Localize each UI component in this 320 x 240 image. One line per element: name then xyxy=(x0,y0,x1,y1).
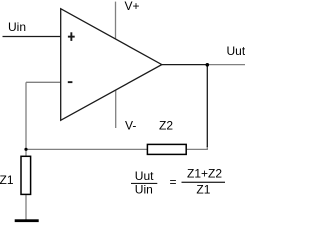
svg-text:Uin: Uin xyxy=(135,183,153,197)
pin + noninverting input symbol xyxy=(68,32,75,41)
svg-text:Z1+Z2: Z1+Z2 xyxy=(187,167,222,181)
formula right fraction bar xyxy=(182,182,226,183)
svg-text:Uin: Uin xyxy=(8,20,26,34)
wire output down to feedback xyxy=(206,65,208,147)
svg-text:V-: V- xyxy=(125,119,136,133)
pin - inverting input symbol xyxy=(68,81,73,83)
wire Uin input to noninverting pin xyxy=(3,36,62,38)
svg-text:Z1: Z1 xyxy=(0,173,14,187)
wire junction to Z2 left xyxy=(26,148,147,150)
svg-text:Z2: Z2 xyxy=(159,119,173,133)
wire feedback vertical left xyxy=(25,82,27,156)
op-amp U1 triangle xyxy=(61,9,162,121)
svg-text:V+: V+ xyxy=(125,0,140,13)
resistor Z2 xyxy=(147,144,186,154)
wire inverting input horizontal xyxy=(26,81,61,83)
wire V+ supply vertical xyxy=(115,2,117,40)
wire output from op-amp xyxy=(162,64,208,66)
svg-text:=: = xyxy=(170,175,177,189)
svg-text:Uut: Uut xyxy=(227,44,246,58)
svg-text:Uut: Uut xyxy=(135,169,154,183)
wire V- supply vertical xyxy=(115,90,117,128)
svg-text:Z1: Z1 xyxy=(196,183,210,197)
node feedback junction dot xyxy=(24,148,27,151)
ground xyxy=(15,219,39,222)
wire output stub to Uut xyxy=(207,64,245,66)
node output junction dot xyxy=(206,63,210,67)
wire Z1 bottom to ground xyxy=(25,194,27,219)
wire Z2 right to output elbow xyxy=(186,146,207,149)
formula left fraction bar xyxy=(131,183,157,184)
resistor Z1 xyxy=(21,156,31,194)
